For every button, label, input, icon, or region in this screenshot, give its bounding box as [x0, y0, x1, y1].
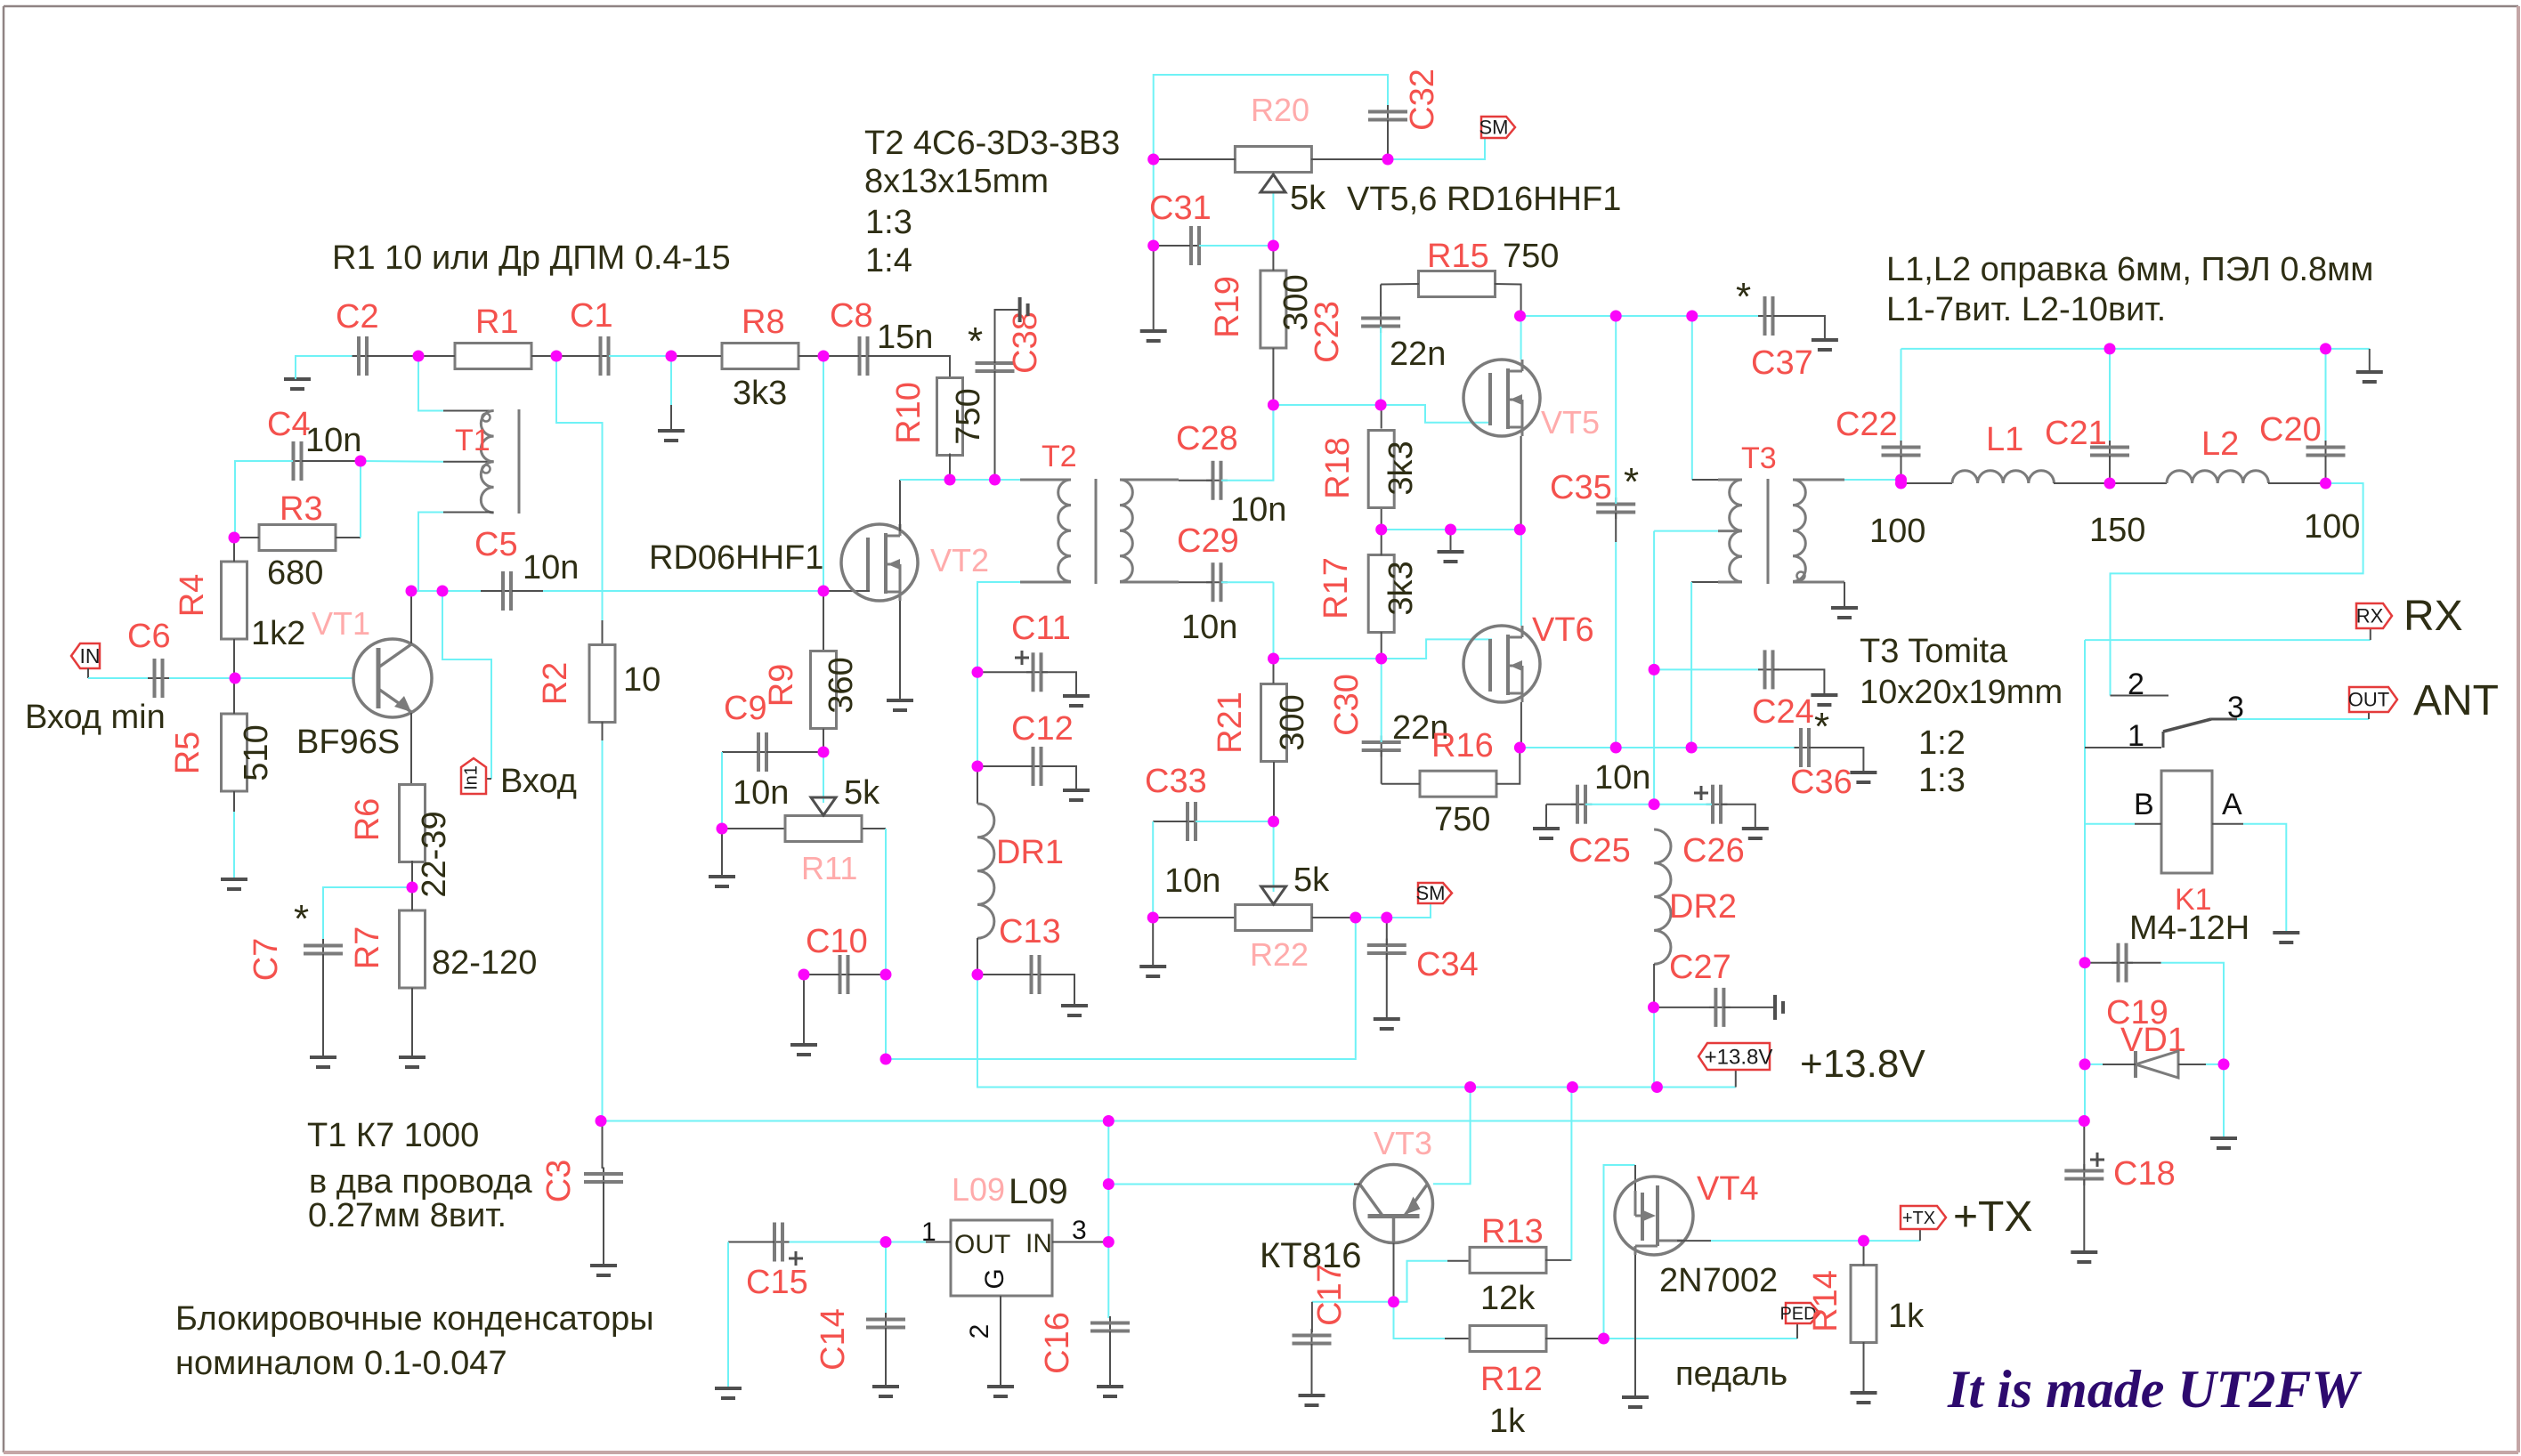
- wire C26 right: [1721, 805, 1755, 827]
- wire In1 lead: [486, 778, 491, 780]
- wire C5 to VT2 gate: [543, 590, 823, 592]
- value 10n C4: [305, 422, 361, 459]
- capacitor C31: [1185, 226, 1206, 265]
- resistor R19: [1260, 271, 1286, 348]
- capacitor C38: [976, 357, 1015, 378]
- ground below R14: [1851, 1393, 1877, 1403]
- label C7: [247, 938, 285, 982]
- wire R3 left: [234, 537, 259, 538]
- wire T3 bot down: [1690, 582, 1692, 748]
- capacitor C24: [1758, 650, 1779, 689]
- ground below C36: [1850, 772, 1877, 782]
- wire C29 left: [1179, 581, 1212, 583]
- wire C3 bottom: [603, 1182, 604, 1264]
- pin G: [980, 1268, 1009, 1289]
- wire VT5 drain: [1520, 316, 1522, 360]
- svg-text:*: *: [1736, 275, 1751, 319]
- capacitor C16: [1090, 1316, 1130, 1338]
- wire IN node up: [1107, 1121, 1109, 1242]
- svg-text:In1: In1: [461, 765, 481, 790]
- wire R8 to node: [798, 355, 823, 357]
- ic L09 box: [951, 1220, 1052, 1296]
- wire OUT lead: [926, 1242, 951, 1243]
- svg-text:10x20x19mm: 10x20x19mm: [1860, 674, 2063, 711]
- label C4: [267, 406, 311, 443]
- wire C28 left: [1179, 480, 1212, 481]
- wire R21 bottom: [1273, 762, 1275, 821]
- svg-text:C17: C17: [1311, 1264, 1349, 1326]
- resistor R17: [1368, 555, 1394, 633]
- wire R22 node row: [1356, 902, 1431, 918]
- wire T1 top lead: [443, 410, 494, 412]
- label C29: [1177, 522, 1239, 560]
- label C5: [474, 526, 518, 563]
- star C35: [1624, 460, 1639, 504]
- capacitor C22: [1882, 441, 1921, 462]
- flag +13.8V: [1698, 1043, 1772, 1070]
- text BF96S: [296, 724, 400, 761]
- flag OUT: [2348, 687, 2397, 712]
- label T2: [1042, 440, 1077, 473]
- transistor VT3 KT816: [1355, 1165, 1433, 1243]
- wire VT4 source: [1634, 1255, 1636, 1395]
- text RX: [2403, 593, 2463, 640]
- wire C36 left: [1691, 747, 1796, 748]
- svg-text:C4: C4: [267, 406, 311, 443]
- label C16: [1039, 1312, 1076, 1374]
- svg-text:+TX: +TX: [1953, 1193, 2032, 1241]
- svg-text:R20: R20: [1251, 92, 1309, 128]
- wire RX lead: [2370, 628, 2371, 640]
- wire C22 top: [1901, 349, 1902, 441]
- wire R1 to node: [531, 355, 556, 357]
- label L1: [1986, 421, 2023, 458]
- ground below R5: [221, 879, 247, 889]
- text L09: [1009, 1172, 1068, 1211]
- wire to R2 top: [602, 620, 604, 645]
- wire C31 gnd: [1153, 246, 1155, 329]
- svg-text:C28: C28: [1176, 420, 1238, 457]
- transistor VT2 RD06HHF1: [841, 524, 918, 601]
- svg-text:100: 100: [2304, 508, 2360, 546]
- label R11: [801, 850, 857, 886]
- wire R13 to rail: [1570, 1088, 1572, 1260]
- resistor R10: [937, 378, 963, 456]
- label C9: [724, 690, 767, 727]
- capacitor C8: [853, 336, 874, 376]
- svg-text:VT5,6 RD16HHF1: VT5,6 RD16HHF1: [1347, 181, 1621, 218]
- transformer T2: [1020, 479, 1179, 584]
- wire C1 to node: [609, 355, 671, 357]
- wire node to C38node: [950, 479, 995, 481]
- svg-text:300: 300: [1274, 694, 1311, 750]
- label VT5: [1541, 404, 1600, 441]
- wire C2 node down to T1: [418, 356, 443, 411]
- value 750 R10: [950, 388, 987, 444]
- label L2: [2201, 425, 2239, 463]
- wire drain node link: [900, 479, 950, 481]
- value 22-39: [416, 811, 453, 897]
- value 300 R19: [1277, 274, 1315, 330]
- svg-text:R19: R19: [1209, 276, 1246, 338]
- capacitor C32: [1368, 105, 1407, 126]
- svg-text:R3: R3: [280, 490, 323, 528]
- svg-text:ANT: ANT: [2413, 677, 2499, 724]
- pin 1 switch: [2128, 719, 2144, 753]
- wire R16 left: [1382, 783, 1420, 785]
- label C36: [1790, 764, 1852, 801]
- transistor VT4 2N7002: [1615, 1177, 1693, 1255]
- wire R8 node down: [823, 356, 824, 591]
- svg-text:680: 680: [267, 554, 323, 592]
- svg-text:1:4: 1:4: [865, 242, 912, 279]
- wire K1 A lead: [2212, 823, 2243, 825]
- wire In1 branch: [442, 591, 491, 779]
- svg-text:R1: R1: [475, 303, 519, 341]
- svg-text:C11: C11: [1011, 610, 1071, 647]
- svg-text:C3: C3: [540, 1160, 578, 1203]
- svg-text:10n: 10n: [733, 774, 789, 812]
- wire C10 right: [847, 974, 886, 975]
- ground below G: [987, 1387, 1014, 1396]
- capacitor C36: [1795, 728, 1816, 767]
- resistor R12: [1470, 1326, 1546, 1352]
- ground right of C27: [1775, 995, 1783, 1020]
- svg-text:*: *: [1814, 705, 1829, 748]
- label R18: [1319, 437, 1357, 499]
- svg-text:3: 3: [1072, 1216, 1087, 1245]
- svg-text:номиналом 0.1-0.047: номиналом 0.1-0.047: [175, 1345, 507, 1382]
- svg-text:T3 Tomita: T3 Tomita: [1860, 633, 2008, 670]
- value 3k3 R8: [733, 375, 787, 412]
- wire R3 to C4 node: [360, 461, 361, 538]
- wire VT4 drain to TX: [1711, 1240, 1920, 1242]
- svg-text:C36: C36: [1790, 764, 1852, 801]
- wire C9 right: [766, 751, 823, 753]
- wiper R11: [811, 752, 836, 815]
- capacitor C1: [594, 336, 615, 376]
- svg-text:SM: SM: [1416, 882, 1446, 904]
- value 10n C28: [1230, 491, 1286, 529]
- wire R10 bottom: [949, 454, 951, 481]
- resistor R3: [259, 525, 336, 551]
- svg-text:M4-12H: M4-12H: [2129, 910, 2249, 947]
- svg-text:2: 2: [2128, 667, 2144, 701]
- pin IN: [1025, 1229, 1052, 1258]
- wire R2 bottom: [602, 722, 604, 740]
- svg-text:RX: RX: [2356, 605, 2384, 627]
- svg-text:R2: R2: [537, 662, 574, 706]
- svg-text:C16: C16: [1039, 1312, 1076, 1374]
- wire C22 bottom: [1901, 456, 1902, 483]
- text blocking1: [175, 1300, 654, 1338]
- svg-text:R8: R8: [742, 303, 785, 341]
- ground right of C11: [1063, 696, 1090, 706]
- label R6: [349, 798, 386, 842]
- wire 13.8 lead: [1735, 1069, 1737, 1088]
- svg-text:IN: IN: [80, 644, 101, 667]
- svg-text:C32: C32: [1404, 69, 1441, 131]
- capacitor C29: [1206, 562, 1228, 602]
- label K1: [2175, 883, 2212, 917]
- text T3 note4: [1918, 762, 1966, 799]
- wire C31 left: [1154, 245, 1190, 247]
- svg-text:C24: C24: [1752, 693, 1814, 731]
- label C1: [570, 297, 613, 335]
- value 5k R11: [844, 774, 880, 812]
- wire to SM1: [1388, 139, 1485, 159]
- wire R4 bottom: [233, 639, 235, 678]
- svg-text:B: B: [2134, 788, 2154, 821]
- capacitor C27: [1709, 988, 1731, 1027]
- star C7: [294, 897, 309, 941]
- label C30: [1328, 674, 1366, 736]
- wire node to R1: [418, 355, 455, 357]
- wire R5 bottom: [233, 791, 235, 812]
- svg-text:C27: C27: [1669, 949, 1731, 986]
- wire C29 node to R21: [1273, 582, 1275, 659]
- svg-text:C5: C5: [474, 526, 518, 563]
- wire VT6 source: [1520, 702, 1522, 748]
- svg-text:DR1: DR1: [996, 834, 1064, 871]
- value 5k R22: [1293, 861, 1330, 899]
- wire node to C7: [323, 887, 412, 939]
- svg-text:R16: R16: [1431, 727, 1494, 764]
- wire C34 top: [1386, 918, 1388, 945]
- value 12k: [1480, 1280, 1536, 1317]
- svg-text:RD06HHF1: RD06HHF1: [649, 539, 823, 577]
- wire TX lead: [1919, 1229, 1921, 1241]
- value 5k R20: [1290, 180, 1326, 217]
- wire C27 right: [1723, 1007, 1775, 1008]
- wire R12 node to PED: [1604, 1338, 1798, 1339]
- wire C17 bottom: [1311, 1344, 1313, 1394]
- label VT2: [930, 542, 989, 578]
- svg-text:C13: C13: [999, 913, 1061, 950]
- wire C8 to R10: [868, 356, 950, 380]
- wire node to VT5 gate: [1381, 405, 1492, 423]
- flag SM1: [1479, 117, 1516, 139]
- pin 3: [1072, 1216, 1087, 1245]
- capacitor C5: [497, 571, 518, 611]
- ground below C34: [1374, 1019, 1400, 1029]
- wire C34 bottom: [1386, 953, 1388, 1017]
- text T1 note1: [307, 1117, 479, 1154]
- wire K1 B: [2085, 823, 2135, 825]
- wire C14 top: [885, 1242, 887, 1315]
- svg-text:L09: L09: [952, 1171, 1005, 1208]
- svg-text:82-120: 82-120: [432, 944, 537, 982]
- svg-text:5k: 5k: [1293, 861, 1330, 899]
- wire C20 bottom: [2325, 456, 2327, 483]
- wire ANT row: [2237, 718, 2369, 720]
- svg-text:C10: C10: [806, 923, 868, 960]
- label C27: [1669, 949, 1731, 986]
- wire node to R8: [671, 355, 721, 357]
- wire L2 left: [2110, 482, 2167, 484]
- value 1k R12: [1489, 1403, 1526, 1440]
- ground below K1 A: [2273, 933, 2299, 942]
- capacitor C4: [287, 441, 308, 481]
- svg-text:R1 10 или Др ДПМ 0.4-15: R1 10 или Др ДПМ 0.4-15: [332, 239, 731, 277]
- resistor R15: [1419, 271, 1496, 297]
- svg-text:R12: R12: [1480, 1361, 1543, 1398]
- svg-text:SM: SM: [1479, 117, 1509, 139]
- wire mid gnd lead: [1450, 530, 1452, 550]
- label C12: [1011, 710, 1074, 748]
- wire VT1 emitter: [410, 713, 412, 786]
- wire C12 right: [1042, 766, 1076, 789]
- ground left of C2: [284, 379, 311, 389]
- resistor R18: [1368, 431, 1394, 508]
- potentiometer R20: [1235, 147, 1311, 173]
- label C19: [2106, 994, 2168, 1031]
- capacitor C2: [353, 336, 374, 376]
- capacitor C13: [1025, 955, 1046, 994]
- svg-text:150: 150: [2089, 512, 2145, 549]
- text L1L2 note1: [1886, 251, 2373, 288]
- wire C27 left: [1654, 1007, 1714, 1008]
- svg-text:1k2: 1k2: [251, 615, 305, 652]
- label R4: [174, 574, 211, 618]
- wire IN lead: [87, 668, 89, 678]
- svg-text:R9: R9: [763, 664, 800, 708]
- label R8: [742, 303, 785, 341]
- svg-text:22-39: 22-39: [416, 811, 453, 897]
- svg-text:T2: T2: [1042, 440, 1077, 473]
- wire C33 left: [1153, 821, 1188, 822]
- flag +TX: [1901, 1206, 1946, 1229]
- wiper R22: [1261, 878, 1286, 904]
- wire R14 bottom: [1863, 1342, 1865, 1391]
- label L09 pale: [952, 1171, 1005, 1208]
- text T3 note2: [1860, 674, 2063, 711]
- value 10n C29: [1181, 609, 1237, 646]
- wire pin2 stub: [2111, 695, 2169, 697]
- ground below C18: [2071, 1252, 2097, 1262]
- label C21: [2045, 415, 2107, 452]
- value 82-120: [432, 944, 537, 982]
- resistor R14: [1851, 1266, 1877, 1343]
- wire L1 right: [2054, 482, 2110, 484]
- wire C9 to R11 node: [721, 752, 723, 829]
- svg-text:R17: R17: [1317, 557, 1355, 619]
- wire C4 left: [235, 461, 293, 538]
- wire C3 top lead: [602, 1121, 604, 1169]
- label VT1: [312, 605, 370, 642]
- flag RX: [2356, 603, 2392, 628]
- wire R20 right: [1311, 158, 1388, 160]
- svg-text:+13.8V: +13.8V: [1705, 1045, 1773, 1069]
- wire C30 top: [1381, 659, 1382, 742]
- capacitor C6: [148, 659, 169, 698]
- wire R20 left: [1154, 158, 1236, 160]
- value 750 R15: [1503, 238, 1559, 275]
- capacitor C37: [1758, 296, 1779, 336]
- resistor R8: [722, 344, 798, 369]
- label C13: [999, 913, 1061, 950]
- svg-text:*: *: [968, 320, 983, 363]
- label R3: [280, 490, 323, 528]
- wire VT6 drain: [1520, 530, 1522, 626]
- label C37: [1751, 344, 1813, 382]
- svg-text:C8: C8: [830, 297, 873, 335]
- svg-text:VT2: VT2: [930, 542, 989, 578]
- potentiometer R11: [785, 816, 862, 842]
- svg-text:*: *: [294, 897, 309, 941]
- wire C10 left: [804, 974, 839, 975]
- value 22n C23: [1390, 336, 1446, 373]
- label C11: [1011, 610, 1071, 647]
- ground below T3: [1831, 608, 1858, 618]
- label C10: [806, 923, 868, 960]
- svg-text:+13.8V: +13.8V: [1800, 1042, 1925, 1086]
- wire R15 right: [1495, 284, 1521, 316]
- wire C35 bottom stub: [1615, 513, 1617, 542]
- label C8: [830, 297, 873, 335]
- capacitor C12: [1026, 747, 1048, 786]
- wire node to R9: [823, 591, 824, 651]
- capacitor C18: [2064, 1164, 2104, 1185]
- wire T3 bot left: [1691, 581, 1718, 583]
- value 10n C5: [523, 549, 579, 586]
- text +TX: [1953, 1193, 2032, 1241]
- svg-text:VT6: VT6: [1532, 611, 1594, 649]
- ground below C25 left: [1533, 829, 1560, 838]
- svg-text:3k3: 3k3: [1382, 441, 1420, 495]
- svg-text:L1,L2 оправка 6мм, ПЭЛ 0.8мм: L1,L2 оправка 6мм, ПЭЛ 0.8мм: [1886, 251, 2373, 288]
- value 100 C22: [1869, 513, 1925, 550]
- text R1 note: [332, 239, 731, 277]
- svg-text:1:2: 1:2: [1918, 724, 1966, 762]
- wiper R20: [1260, 174, 1285, 246]
- svg-text:C6: C6: [127, 618, 171, 655]
- svg-text:C33: C33: [1145, 763, 1207, 800]
- label C6: [127, 618, 171, 655]
- label C14: [815, 1308, 852, 1371]
- wire C25 gnd: [1545, 805, 1547, 827]
- wire top rail: [1154, 75, 1388, 159]
- wire R6R7 node: [411, 887, 413, 910]
- wire R13 right: [1545, 1259, 1571, 1261]
- pin A: [2222, 788, 2242, 821]
- wire L2 right: [2268, 482, 2326, 484]
- svg-text:1:3: 1:3: [1918, 762, 1966, 799]
- value 150: [2089, 512, 2145, 549]
- potentiometer R22: [1236, 905, 1312, 931]
- svg-text:T2 4C6-3D3-3B3: T2 4C6-3D3-3B3: [864, 125, 1120, 162]
- svg-text:C35: C35: [1550, 469, 1612, 506]
- wire C38 bottom: [994, 371, 996, 480]
- label C17: [1311, 1264, 1349, 1326]
- wire R19 top: [1272, 246, 1274, 271]
- wire C28 vert: [1272, 405, 1274, 481]
- wire C21 top: [2109, 349, 2111, 441]
- svg-text:A: A: [2222, 788, 2242, 821]
- capacitor C33: [1181, 802, 1203, 841]
- svg-text:C7: C7: [247, 938, 285, 982]
- svg-text:750: 750: [950, 388, 987, 444]
- wire C16 top: [1107, 1242, 1109, 1319]
- capacitor C30: [1362, 736, 1401, 757]
- diode VD1: [2103, 1051, 2206, 1078]
- wire T3 mid down: [1653, 531, 1655, 670]
- wire C11 right: [1042, 672, 1076, 694]
- value 10 R2: [623, 661, 661, 699]
- capacitor C11: [1026, 652, 1048, 692]
- svg-text:T1: T1: [455, 424, 490, 457]
- svg-text:5k: 5k: [1290, 180, 1326, 217]
